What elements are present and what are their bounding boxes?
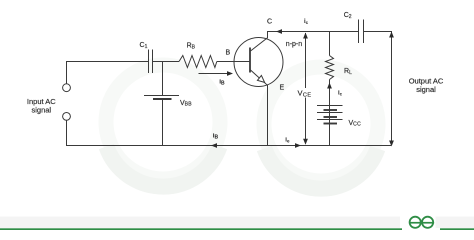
- top rail collector to C2: [267, 31, 358, 33]
- capacitor C1 right plate: [152, 50, 154, 74]
- svg-text:C2: C2: [344, 12, 352, 20]
- arrowhead VCE down: [303, 139, 308, 145]
- wire input bottom vertical: [66, 120, 68, 145]
- capacitor C2 left plate: [358, 20, 360, 44]
- svg-text:iB: iB: [213, 132, 219, 140]
- watermark right ring: [264, 67, 378, 181]
- svg-text:RL: RL: [344, 68, 352, 76]
- wire Vcc to bottom rail: [329, 106, 331, 146]
- transistor emitter line: [251, 70, 268, 146]
- battery Vcc short plate 1: [324, 109, 338, 111]
- capacitor C2 right plate: [363, 20, 365, 44]
- input terminal circle bottom: [63, 113, 71, 121]
- battery VBB long plate: [144, 95, 179, 97]
- svg-text:ic: ic: [304, 19, 309, 25]
- top rail C2 to output: [364, 31, 392, 33]
- svg-text:ic: ic: [338, 91, 343, 97]
- svg-text:signal: signal: [416, 85, 436, 94]
- battery Vcc long plate 1: [317, 105, 343, 107]
- svg-text:B: B: [226, 50, 231, 57]
- bottom rail: [66, 145, 391, 147]
- logo middle bar: [409, 222, 434, 224]
- capacitor C1 left plate: [148, 50, 150, 74]
- VCE measure line lower: [305, 98, 307, 144]
- svg-text:iB: iB: [219, 78, 225, 86]
- arrowhead iB base (right): [227, 71, 233, 76]
- bottom gray band: [0, 217, 400, 229]
- transistor base bar: [249, 48, 251, 73]
- svg-text:C1: C1: [140, 42, 148, 50]
- RL branch top wire: [329, 32, 331, 56]
- wire C1 to RB: [153, 61, 180, 63]
- arrowhead bottom rail iB (left): [211, 143, 217, 148]
- watermark bottom arcs: [106, 147, 219, 187]
- transistor Q1 circle: [234, 38, 283, 87]
- base current arrow line: [199, 73, 230, 75]
- battery Vcc short plate 2: [324, 116, 338, 118]
- resistor RL zigzag: [326, 56, 334, 80]
- svg-text:E: E: [280, 85, 285, 92]
- svg-text:C: C: [267, 19, 272, 26]
- battery Vcc long plate 3: [317, 119, 343, 121]
- wire RL to Vcc: [329, 80, 331, 106]
- svg-text:VBB: VBB: [180, 100, 192, 108]
- svg-text:VCC: VCC: [349, 120, 362, 128]
- arrowhead top rail ic (left): [276, 29, 282, 34]
- arrowhead output up: [389, 32, 394, 38]
- footer green line left: [0, 228, 402, 230]
- wire RB to base: [217, 61, 250, 63]
- arrowhead bottom rail ie (right): [295, 143, 301, 148]
- wire top rail input to C1: [66, 61, 148, 63]
- input terminal circle top: [63, 84, 71, 92]
- wire VBB branch upper: [162, 62, 164, 96]
- watermark left ring: [106, 65, 220, 179]
- svg-text:n-p-n: n-p-n: [286, 41, 302, 48]
- footer green line right: [440, 228, 474, 230]
- emitter open arrowhead: [257, 75, 264, 82]
- transistor collector line: [251, 31, 268, 51]
- battery Vcc long plate 2: [317, 112, 343, 114]
- battery Vcc short plate 3: [324, 123, 338, 125]
- output vertical line: [391, 31, 393, 146]
- wire VBB branch lower: [162, 100, 164, 146]
- GeeksforGeeks logo: [410, 217, 434, 228]
- arrowhead VCE up: [303, 33, 308, 39]
- svg-text:RB: RB: [187, 43, 196, 51]
- VCE measure line upper: [305, 33, 307, 88]
- resistor RB zigzag: [179, 56, 217, 68]
- arrowhead output down: [389, 141, 394, 147]
- arrowhead RL ic up: [327, 83, 332, 89]
- battery VBB short plate: [153, 98, 172, 100]
- svg-text:signal: signal: [31, 106, 51, 115]
- wire input top vertical: [66, 61, 68, 84]
- svg-text:ie: ie: [285, 137, 290, 143]
